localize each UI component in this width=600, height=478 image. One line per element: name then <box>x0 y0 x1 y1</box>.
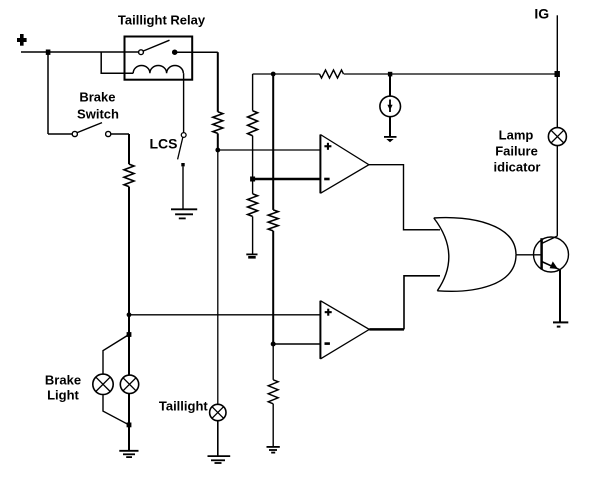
svg-text:Brake: Brake <box>79 90 115 105</box>
svg-text:Switch: Switch <box>77 106 119 121</box>
svg-text:Taillight Relay: Taillight Relay <box>118 12 206 27</box>
svg-text:IG: IG <box>534 6 549 22</box>
svg-text:Light: Light <box>47 387 79 402</box>
svg-text:Failure: Failure <box>495 144 538 159</box>
svg-text:idicator: idicator <box>494 160 541 175</box>
svg-text:Brake: Brake <box>45 373 81 388</box>
svg-text:Taillight: Taillight <box>159 398 209 413</box>
svg-text:Lamp: Lamp <box>499 128 534 143</box>
svg-text:LCS: LCS <box>150 136 178 152</box>
